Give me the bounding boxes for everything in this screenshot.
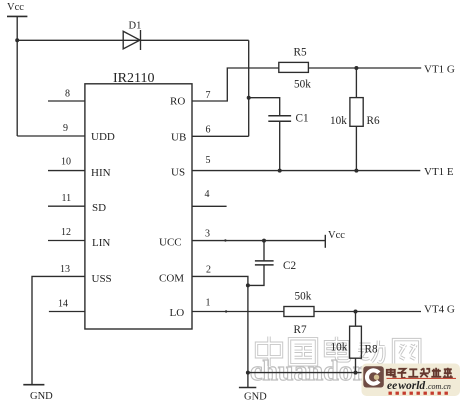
svg-text:6: 6 [206,125,211,136]
wire UB drop vertical [248,40,250,136]
wire Vcc vertical to pin 9 [16,16,18,136]
wire pin 9 UDD from Vcc [17,135,85,137]
svg-text:HIN: HIN [91,167,111,179]
svg-text:50k: 50k [294,79,311,91]
wire pin 1 LO to R7 [192,311,284,313]
pin 8 stub wire [48,100,85,102]
node junction ground rail [246,371,250,375]
svg-text:7: 7 [206,90,211,101]
svg-text:USS: USS [92,273,112,285]
pin 14 stub wire [49,311,85,313]
ground symbol middle [239,387,256,389]
svg-text:US: US [171,167,185,179]
svg-text:UB: UB [171,132,186,144]
pin 11 stub wire [48,205,85,207]
svg-text:50k: 50k [295,291,312,303]
node junction C1 bottom [278,169,282,173]
wire pin 13 USS to ground [32,276,85,384]
eeworld logo block [362,364,460,397]
svg-text:VT4 G: VT4 G [424,304,455,316]
svg-text:Vcc: Vcc [328,230,345,241]
svg-text:13: 13 [60,264,70,275]
wire C2 top lead [263,241,265,261]
node junction C2 top [262,239,266,243]
capacitor C2 [255,261,274,265]
wire pin 6 UB [192,135,249,137]
wire C1 bottom lead [279,122,281,171]
node stray dot 2 [225,310,227,312]
wire top rail to diode and UB [17,39,249,41]
svg-text:LIN: LIN [92,237,110,249]
svg-text:C2: C2 [283,260,296,272]
Vcc terminal tick right [324,235,326,248]
svg-text:5: 5 [206,155,211,166]
capacitor C1 [268,116,291,122]
Vcc power bar terminal [7,15,27,17]
svg-text:SD: SD [92,202,106,214]
pin 12 stub wire [48,240,85,242]
svg-text:10: 10 [61,157,71,168]
svg-text:VT1 G: VT1 G [424,64,455,76]
svg-text:GND: GND [30,391,53,401]
node stray dot [224,239,226,241]
svg-text:2: 2 [206,265,211,276]
pin 10 stub wire [48,170,85,172]
wire pin 3 UCC to Vcc [192,240,325,242]
svg-text:10k: 10k [331,342,348,354]
svg-text:9: 9 [63,123,68,134]
logo text eeworld.com.cn [387,380,451,392]
svg-text:.com.cn: .com.cn [426,382,451,391]
node junction R8 top [354,310,358,314]
node junction Vcc branch [15,38,19,42]
node junction R6 top [354,66,358,70]
logo small red slogan [389,392,448,395]
svg-text:R7: R7 [294,324,307,336]
logo text 电子工程世界 [387,368,453,378]
svg-text:UCC: UCC [159,237,182,249]
node junction C1 branch [247,96,251,100]
logo red underline [387,377,457,379]
svg-text:4: 4 [205,189,210,200]
watermark text 中国电动网 [257,337,420,367]
svg-text:IR2110: IR2110 [113,71,154,86]
svg-text:C1: C1 [296,113,309,125]
svg-text:R6: R6 [367,115,380,127]
wire R5 to VT1 G [308,67,421,69]
resistor R7 [284,307,314,317]
diode D1 [123,30,140,50]
svg-text:Vcc: Vcc [7,2,24,13]
wire pin 5 US to VT1 E [192,170,420,172]
resistor R5 [279,62,309,72]
pin 4 stub wire [192,205,227,207]
wire R8 bottom lead [355,358,357,372]
svg-text:8: 8 [65,89,70,100]
wire pin 7 RO to R5 [192,68,279,101]
svg-text:10k: 10k [330,115,347,127]
svg-text:COM: COM [159,273,184,285]
svg-text:3: 3 [205,229,210,240]
wire C2 bottom lead to COM line [248,265,264,285]
node junction C2 bottom [246,283,250,287]
svg-text:GND: GND [244,392,267,401]
svg-text:world: world [398,380,425,392]
svg-text:1: 1 [206,298,211,309]
wire pin 2 COM to ground [192,276,248,387]
svg-text:R5: R5 [294,47,307,59]
svg-text:11: 11 [62,193,72,204]
wire R7 to VT4 G [314,311,421,313]
wire R6 bottom lead [355,126,357,170]
svg-text:LO: LO [170,307,185,319]
resistor R6 [350,98,363,127]
resistor R8 [350,326,362,358]
ground symbol left [23,384,44,386]
svg-text:12: 12 [61,227,71,238]
svg-text:UDD: UDD [91,131,115,143]
svg-text:R8: R8 [365,344,378,356]
node junction R6 bottom [354,169,358,173]
svg-text:VT1 E: VT1 E [424,166,454,178]
svg-text:ee: ee [387,380,397,392]
wire R6 top lead [355,68,357,98]
svg-text:RO: RO [170,96,185,108]
wire C1 branch [249,98,280,116]
wire ground rail [248,372,362,374]
node junction R8 bottom [354,371,358,375]
wire R8 top lead [355,312,357,327]
svg-text:14: 14 [58,299,68,310]
op-amp U1 IC IR2110 body [85,84,192,329]
svg-text:D1: D1 [129,21,142,32]
